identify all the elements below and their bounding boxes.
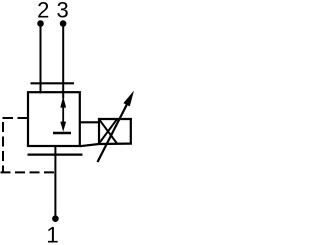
body boundary line bottom <box>28 154 83 156</box>
poppet arrow up head <box>60 96 66 107</box>
pilot line dashed horizontal lower <box>1 171 56 173</box>
adjustment arrow shaft <box>98 101 129 162</box>
spring box right edge <box>130 118 132 145</box>
spring cross diagonal B <box>99 119 117 143</box>
node dot port 2 <box>37 20 44 27</box>
svg-text:1: 1 <box>46 222 59 245</box>
node dot port 3 <box>60 20 67 27</box>
poppet arrow down head <box>60 122 66 132</box>
valve envelope square <box>28 92 80 146</box>
pilot line dashed vertical left <box>2 122 4 172</box>
node dot port 1 <box>52 215 59 222</box>
spring box left edge <box>98 118 100 145</box>
spring box top edge <box>98 118 132 120</box>
wire port 1 vertical <box>54 146 56 216</box>
adjustment arrow head <box>123 91 134 107</box>
poppet seat bar <box>53 132 71 134</box>
wire port 3 vertical <box>62 24 64 99</box>
wire envelope to spring box <box>80 121 99 123</box>
poppet arrow shaft <box>62 104 64 125</box>
svg-text:3: 3 <box>56 0 68 23</box>
spring cross diagonal A <box>99 119 117 143</box>
body boundary line top <box>31 82 75 84</box>
wire port 2 vertical <box>40 24 42 94</box>
pilot line dashed horizontal upper <box>2 117 28 119</box>
spring box bottom edge (continues from envelope corner) <box>80 144 132 147</box>
svg-text:2: 2 <box>37 0 49 23</box>
